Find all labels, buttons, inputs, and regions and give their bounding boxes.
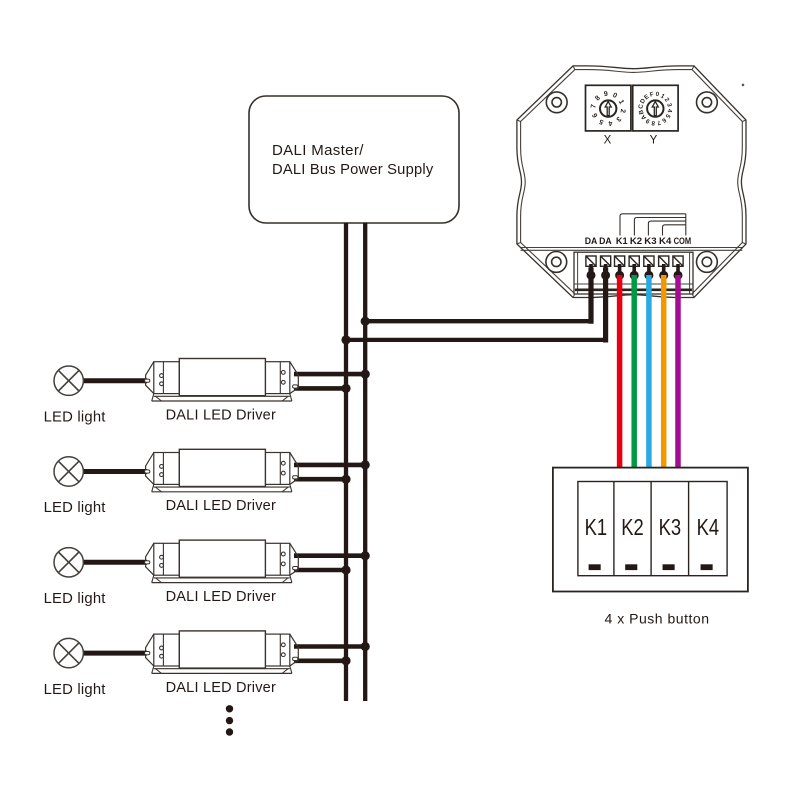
wire LED light 3 to driver 3 <box>82 560 147 565</box>
ellipsis continuation dots <box>226 705 233 736</box>
wire LED light 4 to driver 4 <box>82 651 147 656</box>
wire driver 1 upper to DA+ bus <box>294 372 365 377</box>
svg-text:DALI LED Driver: DALI LED Driver <box>166 497 276 514</box>
mounting screw bottom-left <box>546 252 567 273</box>
junction driver 4 lower / bus DA- <box>341 656 350 665</box>
svg-text:K4: K4 <box>659 236 671 246</box>
wire K2 green <box>631 275 637 468</box>
LED light lamp symbol 3 <box>54 548 83 577</box>
junction driver 1 lower / bus DA- <box>341 384 350 393</box>
rotary switch X <box>586 85 631 131</box>
terminal screw K2 (4) <box>629 256 639 266</box>
button pad K4 <box>701 564 713 570</box>
wire driver 1 lower to DA- bus <box>294 386 346 391</box>
wire LED light 2 to driver 2 <box>82 469 147 474</box>
wire driver 2 lower to DA- bus <box>294 477 346 482</box>
junction driver 1 upper / bus DA+ <box>361 370 370 379</box>
wire DA2 from device to bus <box>603 270 608 340</box>
DALI LED driver 3 <box>145 540 299 583</box>
svg-text:K2: K2 <box>630 236 642 246</box>
svg-text:DA: DA <box>599 236 612 246</box>
faceplate separator lines <box>521 248 743 251</box>
terminal screw DA (2) <box>601 256 611 266</box>
junction bus DA+ / DA1 <box>361 317 370 326</box>
wire DALI bus DA+ vertical <box>363 223 367 702</box>
LED light lamp symbol 4 <box>54 638 83 667</box>
wire end ferrule DA <box>587 264 596 280</box>
wire K1 red <box>617 275 623 468</box>
junction driver 3 lower / bus DA- <box>341 565 350 574</box>
terminal strip block <box>574 252 693 294</box>
wire DA1 from device to bus <box>588 270 593 321</box>
wire end ferrule DA <box>601 264 610 280</box>
svg-text:DALI LED Driver: DALI LED Driver <box>166 588 276 605</box>
wire K3 blue <box>646 275 652 468</box>
wire COM purple <box>675 275 681 468</box>
wire LED light 1 to driver 1 <box>82 378 147 383</box>
svg-text:LED light: LED light <box>44 590 107 607</box>
junction driver 2 lower / bus DA- <box>341 475 350 484</box>
svg-text:COM: COM <box>674 236 692 246</box>
svg-text:LED light: LED light <box>44 499 107 516</box>
DALI LED driver 4 <box>145 631 299 674</box>
terminal screw DA (1) <box>586 256 596 266</box>
svg-text:X: X <box>604 135 612 147</box>
wire end ferrule COM <box>674 264 683 280</box>
junction driver 3 upper / bus DA+ <box>361 551 370 560</box>
wire K4 orange <box>661 275 667 468</box>
LED light lamp symbol 2 <box>54 457 83 486</box>
print speck <box>742 84 745 87</box>
svg-text:4 x Push button: 4 x Push button <box>605 611 710 627</box>
svg-text:K1: K1 <box>585 514 608 540</box>
wire end ferrule K1 <box>615 264 624 280</box>
svg-text:DALI LED Driver: DALI LED Driver <box>166 406 276 423</box>
wire driver 2 upper to DA+ bus <box>294 463 365 468</box>
junction bus DA- / DA2 <box>341 335 350 344</box>
button pad K2 <box>625 564 637 570</box>
svg-text:DALI Bus Power Supply: DALI Bus Power Supply <box>272 161 434 178</box>
junction driver 2 upper / bus DA+ <box>361 460 370 469</box>
DALI LED driver 1 <box>145 359 299 402</box>
junction driver 4 upper / bus DA+ <box>361 642 370 651</box>
svg-text:LED light: LED light <box>44 408 107 425</box>
svg-text:DA: DA <box>585 236 598 246</box>
DALI Master / Bus Power Supply box <box>249 96 459 223</box>
svg-text:K3: K3 <box>644 236 656 246</box>
push button panel box <box>553 468 748 592</box>
terminal screw K3 (5) <box>644 256 654 266</box>
svg-text:DALI Master/: DALI Master/ <box>272 142 364 159</box>
wire end ferrule K3 <box>644 264 653 280</box>
wire driver 3 upper to DA+ bus <box>294 553 365 558</box>
mounting screw top-left <box>546 92 567 113</box>
push button controller device outline <box>517 66 746 298</box>
terminal screw COM (7) <box>673 256 683 266</box>
wire DALI bus DA- vertical <box>344 223 348 702</box>
svg-text:LED light: LED light <box>44 681 107 698</box>
svg-text:K4: K4 <box>697 514 720 540</box>
wire end ferrule K2 <box>630 264 639 280</box>
DALI LED driver 2 <box>145 449 299 492</box>
internal key wiring lines K1-K4 to COM <box>620 214 686 236</box>
svg-text:Y: Y <box>650 135 658 147</box>
svg-text:K3: K3 <box>659 514 682 540</box>
wire driver 4 upper to DA+ bus <box>294 644 365 649</box>
mounting screw top-right <box>697 92 718 113</box>
LED light lamp symbol 1 <box>54 366 83 395</box>
terminal screw K4 (6) <box>659 256 669 266</box>
wire end ferrule K4 <box>659 264 668 280</box>
svg-text:K1: K1 <box>616 236 628 246</box>
mounting screw bottom-right <box>697 252 718 273</box>
button pad K3 <box>663 564 675 570</box>
svg-text:DALI LED Driver: DALI LED Driver <box>166 679 276 696</box>
terminal screw K1 (3) <box>615 256 625 266</box>
wire driver 3 lower to DA- bus <box>294 568 346 573</box>
rotary switch Y <box>633 85 678 131</box>
wire driver 4 lower to DA- bus <box>294 658 346 663</box>
button pad K1 <box>589 564 601 570</box>
svg-text:K2: K2 <box>621 514 644 540</box>
